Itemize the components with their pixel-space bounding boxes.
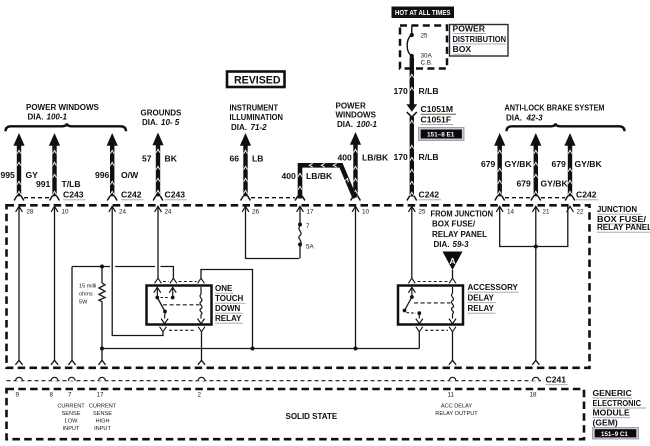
svg-text:C242: C242: [419, 190, 440, 200]
svg-text:9: 9: [16, 392, 20, 399]
wire pin10(2nd) down to bus: [354, 206, 358, 350]
svg-text:DIA.: DIA.: [506, 113, 522, 122]
wire arrow 991 T/LB: [49, 133, 60, 201]
svg-text:DIA.: DIA.: [337, 120, 353, 129]
svg-text:C.B.: C.B.: [421, 60, 433, 67]
junction box border: [7, 205, 590, 367]
svg-text:10: 10: [62, 209, 70, 216]
wire arrow 679 GY/BK (1): [494, 133, 505, 201]
svg-text:A: A: [450, 256, 456, 266]
svg-text:18: 18: [530, 392, 538, 399]
svg-text:C243: C243: [165, 190, 186, 200]
svg-text:11: 11: [448, 392, 455, 399]
connector label C242 (center): [419, 190, 442, 200]
svg-text:26: 26: [252, 209, 260, 216]
heading power windows: [26, 103, 100, 122]
svg-text:5W: 5W: [79, 300, 88, 306]
connector label C242 (right): [576, 190, 599, 200]
svg-text:CURRENT: CURRENT: [89, 404, 117, 410]
svg-text:679: 679: [552, 159, 567, 169]
wire pin24 ground to relay top contact 1: [157, 206, 159, 278]
svg-text:BOX: BOX: [453, 44, 472, 54]
svg-text:57: 57: [142, 154, 152, 164]
svg-text:C242: C242: [576, 190, 597, 200]
connector label C242 (left): [121, 190, 144, 200]
wire 170 R/LB continuing down to C242: [407, 117, 417, 201]
power distribution box label: [450, 24, 509, 57]
svg-text:DELAY: DELAY: [468, 294, 495, 303]
connector dashes between ABS wires: [505, 197, 530, 199]
wire arrow 57 BK (ground): [152, 133, 163, 201]
svg-text:INPUT: INPUT: [63, 426, 80, 432]
wire arrow 995 GY: [13, 133, 24, 201]
svg-text:RELAY PANEL: RELAY PANEL: [597, 223, 650, 232]
relay bottom connector flares + dashes: [160, 327, 205, 332]
svg-text:ONE: ONE: [215, 284, 233, 293]
svg-text:14: 14: [507, 209, 515, 216]
relay coil: [449, 287, 456, 324]
hot at all times box: [392, 7, 455, 19]
svg-text:ELECTRONIC: ELECTRONIC: [593, 398, 642, 408]
label 170 R/LB (upper): [394, 86, 439, 96]
svg-text:WINDOWS: WINDOWS: [336, 111, 377, 120]
svg-text:21: 21: [543, 209, 551, 216]
svg-text:INSTRUMENT: INSTRUMENT: [230, 104, 279, 113]
svg-text:LB/BK: LB/BK: [306, 171, 333, 181]
svg-text:996: 996: [95, 170, 110, 180]
svg-text:MODULE: MODULE: [593, 408, 631, 418]
grid ref box 151-8 E1: [419, 128, 465, 141]
wire one-touch coil bottom to GEM 2: [198, 332, 205, 365]
svg-text:LB: LB: [252, 154, 263, 164]
svg-text:R/LB: R/LB: [419, 152, 439, 162]
svg-text:5A: 5A: [306, 244, 315, 251]
relay bottom connector flares + dashes: [416, 327, 456, 332]
svg-text:DIA.: DIA.: [142, 118, 158, 127]
label 57 BK: [142, 154, 178, 164]
svg-text:C242: C242: [121, 190, 142, 200]
svg-text:24: 24: [119, 209, 127, 216]
svg-text:8: 8: [50, 392, 54, 399]
svg-text:DOWN: DOWN: [215, 304, 241, 313]
svg-text:ANTI-LOCK BRAKE SYSTEM: ANTI-LOCK BRAKE SYSTEM: [505, 104, 605, 113]
relay top connector flares + dashes: [408, 278, 456, 283]
label 170 R/LB (lower): [394, 152, 439, 162]
relay box: [147, 286, 212, 325]
svg-text:HIGH: HIGH: [96, 419, 110, 425]
svg-text:ACCESSORY: ACCESSORY: [468, 283, 519, 292]
svg-text:66: 66: [230, 154, 240, 164]
svg-text:170: 170: [394, 86, 409, 96]
wire arrow 996 O/W: [107, 133, 118, 201]
GEM pin function text: [57, 404, 85, 433]
svg-text:DIA.: DIA.: [231, 123, 247, 132]
svg-text:59-3: 59-3: [453, 240, 470, 249]
wire arrow 66 LB: [240, 133, 251, 201]
svg-text:RELAY: RELAY: [215, 314, 242, 323]
svg-text:HOT AT ALL TIMES: HOT AT ALL TIMES: [395, 8, 451, 17]
wire arrow 400 LB/BK (up): [350, 132, 361, 201]
svg-text:151–9 C1: 151–9 C1: [601, 431, 628, 438]
relay armature: [403, 297, 423, 324]
svg-text:151–8 E1: 151–8 E1: [427, 132, 455, 139]
wire A triangle to accessory coil: [452, 270, 454, 278]
svg-text:25: 25: [421, 33, 429, 40]
label C241: [546, 375, 569, 385]
svg-text:SENSE: SENSE: [93, 411, 112, 417]
in-line connector C1051M / C1051F: [406, 104, 456, 125]
pin entry arrows + pin numbers along top edge: [16, 206, 584, 215]
relay label: [215, 284, 246, 323]
svg-text:(GEM): (GEM): [593, 417, 618, 427]
brace power windows: [6, 123, 127, 131]
svg-text:POWER: POWER: [336, 102, 366, 111]
label 995 GY: [1, 170, 39, 180]
svg-text:REVISED: REVISED: [234, 75, 281, 87]
relay box: [398, 286, 463, 325]
resistor 15 milli ohms 5W: [79, 267, 105, 349]
svg-text:RELAY PANEL: RELAY PANEL: [432, 230, 487, 239]
svg-text:GENERIC: GENERIC: [593, 388, 632, 398]
svg-text:JUNCTION: JUNCTION: [597, 205, 637, 214]
wire arrow 679 GY/BK (2): [530, 133, 541, 201]
relay label: [468, 283, 519, 313]
svg-text:R/LB: R/LB: [419, 86, 439, 96]
from junction box note: [431, 210, 494, 250]
wire pin26 to breaker: [246, 206, 300, 258]
svg-text:100-1: 100-1: [357, 120, 378, 129]
svg-text:CURRENT: CURRENT: [57, 404, 85, 410]
breaker 5A under pin 17: [298, 206, 315, 258]
fuse box (dashed): [400, 26, 447, 69]
svg-text:22: 22: [577, 209, 585, 216]
wire 170 R/LB from breaker down to C1051: [410, 58, 414, 105]
label 66 LB: [230, 154, 264, 164]
relay armature: [157, 298, 168, 324]
svg-text:170: 170: [394, 152, 409, 162]
svg-text:17: 17: [307, 209, 315, 216]
svg-text:C1051M: C1051M: [421, 104, 453, 114]
svg-text:BOX FUSE/: BOX FUSE/: [432, 220, 476, 229]
label 679 GY/BK (2): [517, 179, 569, 189]
svg-text:10: 10: [362, 209, 370, 216]
wire arrow 679 GY/BK (3): [564, 133, 575, 201]
svg-text:995: 995: [1, 170, 16, 180]
label 400 LB/BK (lower): [282, 171, 334, 181]
svg-text:7: 7: [68, 392, 72, 399]
svg-text:10- 5: 10- 5: [161, 118, 180, 127]
node: sense line horizontal: [72, 265, 173, 279]
relay top connector flares + dashes: [155, 278, 205, 283]
revised stamp: [227, 72, 285, 88]
relay internal contact pin: [408, 287, 415, 299]
brace anti-lock: [507, 123, 625, 131]
svg-text:24: 24: [165, 209, 173, 216]
wire pin24 to one-touch relay bottom contact: [112, 206, 163, 335]
svg-text:7: 7: [306, 223, 310, 230]
svg-text:C1051F: C1051F: [421, 114, 452, 124]
svg-text:C241: C241: [546, 375, 567, 385]
svg-text:71-2: 71-2: [251, 123, 268, 132]
wire GEM 7 sense low: [68, 267, 75, 365]
wire accessory coil bottom to GEM 11: [449, 332, 456, 365]
relay mechanical link: [414, 302, 451, 304]
svg-text:TOUCH: TOUCH: [215, 294, 244, 303]
svg-text:SENSE: SENSE: [62, 411, 81, 417]
label 996 O/W: [95, 170, 139, 180]
svg-text:2: 2: [198, 392, 202, 399]
wire pin10 to GEM 8: [51, 206, 58, 364]
svg-text:LOW: LOW: [65, 419, 78, 425]
relay mechanical link: [163, 304, 200, 306]
GEM pin numbers: [16, 392, 538, 399]
junction box label: [597, 205, 650, 232]
svg-text:C243: C243: [63, 190, 84, 200]
svg-text:400: 400: [338, 153, 353, 163]
svg-text:100-1: 100-1: [47, 113, 68, 122]
svg-text:679: 679: [481, 159, 496, 169]
GEM box border: [7, 389, 585, 439]
svg-text:BK: BK: [165, 154, 178, 164]
bus wire (sense line across box bottom): [102, 348, 419, 350]
wire pin25 to accessory relay: [411, 206, 413, 278]
svg-text:15 milli: 15 milli: [79, 284, 96, 290]
svg-text:28: 28: [27, 209, 35, 216]
svg-text:GY/BK: GY/BK: [575, 159, 603, 169]
svg-text:991: 991: [36, 179, 51, 189]
svg-text:POWER: POWER: [453, 24, 486, 34]
connector dashes between 995/991 wires: [24, 197, 49, 199]
svg-text:GY/BK: GY/BK: [541, 179, 569, 189]
svg-text:DISTRIBUTION: DISTRIBUTION: [453, 34, 507, 44]
svg-text:400: 400: [282, 171, 297, 181]
svg-text:DIA.: DIA.: [434, 240, 450, 249]
svg-text:679: 679: [517, 179, 532, 189]
svg-text:42-3: 42-3: [526, 113, 544, 122]
wire pin28 to GEM 9: [15, 206, 22, 364]
svg-text:POWER WINDOWS: POWER WINDOWS: [26, 103, 100, 112]
svg-text:30A: 30A: [421, 53, 433, 60]
wire 400 LB/BK jumper: pin 17 up, across, diagonal down to pin 10: [295, 163, 355, 200]
svg-text:INPUT: INPUT: [94, 426, 111, 432]
svg-text:17: 17: [97, 392, 105, 399]
connector label C243 (ground): [165, 190, 188, 200]
relay internal contact pins: [154, 287, 176, 299]
svg-text:SOLID STATE: SOLID STATE: [286, 412, 338, 421]
circuit breaker 25 30A: [407, 26, 433, 67]
label 991 T/LB: [36, 179, 81, 189]
wire resistor to GEM 17: [98, 347, 105, 365]
connector dashes between 66 and 400 wires: [251, 197, 295, 199]
svg-text:DIA.: DIA.: [28, 113, 44, 122]
svg-text:ohms: ohms: [79, 292, 93, 298]
label 679 GY/BK (1): [481, 159, 533, 169]
connector label C243 (left): [63, 190, 86, 200]
svg-text:FROM JUNCTION: FROM JUNCTION: [431, 210, 494, 219]
svg-text:25: 25: [419, 209, 427, 216]
grid ref box 151-9 C1: [593, 428, 639, 440]
svg-text:T/LB: T/LB: [62, 179, 81, 189]
label 400 LB/BK (upper): [338, 153, 390, 163]
svg-text:LB/BK: LB/BK: [362, 153, 389, 163]
wires ABS pins 14/21/22 tie: [500, 206, 568, 364]
label 679 GY/BK (3): [552, 159, 603, 169]
svg-text:ACC DELAY: ACC DELAY: [441, 404, 473, 410]
relay coil: [198, 287, 205, 324]
svg-text:RELAY OUTPUT: RELAY OUTPUT: [435, 411, 478, 417]
svg-text:ILLUMINATION: ILLUMINATION: [230, 113, 284, 122]
wire one-touch coil top loop to bus: [201, 270, 255, 351]
wire accessory contact to bus: [418, 332, 420, 349]
svg-text:RELAY: RELAY: [468, 304, 495, 313]
svg-text:O/W: O/W: [121, 170, 139, 180]
triangle connector A: [443, 252, 463, 271]
GEM label: [593, 388, 647, 428]
svg-text:GY/BK: GY/BK: [505, 159, 533, 169]
svg-text:GROUNDS: GROUNDS: [141, 109, 183, 118]
